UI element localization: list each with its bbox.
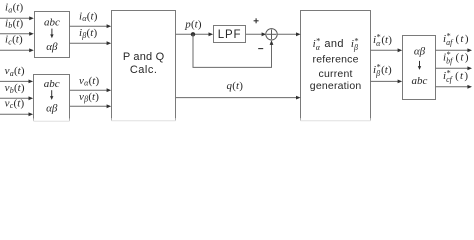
svg-text:αβ: αβ bbox=[414, 46, 426, 58]
svg-text:iα(t): iα(t) bbox=[79, 10, 98, 23]
svg-text:i*β(t): i*β(t) bbox=[373, 62, 392, 78]
svg-text:q(t): q(t) bbox=[227, 80, 244, 92]
svg-text:i*cf(t): i*cf(t) bbox=[443, 67, 468, 83]
svg-text:ic(t): ic(t) bbox=[5, 34, 23, 47]
svg-text:abc: abc bbox=[412, 75, 428, 87]
svg-text:abc: abc bbox=[44, 78, 60, 90]
svg-text:vα(t): vα(t) bbox=[79, 75, 100, 88]
svg-text:iβ(t): iβ(t) bbox=[79, 27, 97, 40]
svg-text:reference: reference bbox=[313, 53, 359, 65]
svg-text:i*bf(t): i*bf(t) bbox=[443, 49, 469, 65]
svg-text:generation: generation bbox=[310, 80, 362, 92]
svg-text:va(t): va(t) bbox=[5, 65, 25, 78]
svg-text:p(t): p(t) bbox=[184, 18, 202, 30]
svg-text:i*α(t): i*α(t) bbox=[373, 32, 392, 48]
svg-text:vb(t): vb(t) bbox=[5, 82, 25, 95]
svg-text:LPF: LPF bbox=[218, 29, 242, 41]
svg-text:vc(t): vc(t) bbox=[5, 97, 25, 110]
svg-text:i*αandi*β: i*αandi*β bbox=[313, 36, 359, 52]
svg-text:vβ(t): vβ(t) bbox=[79, 91, 99, 104]
svg-text:abc: abc bbox=[44, 16, 60, 28]
svg-text:P and Q: P and Q bbox=[123, 51, 165, 63]
svg-text:αβ: αβ bbox=[46, 103, 58, 115]
svg-text:ib(t): ib(t) bbox=[5, 17, 23, 30]
svg-text:i*af(t): i*af(t) bbox=[443, 30, 469, 46]
svg-text:αβ: αβ bbox=[46, 41, 58, 53]
svg-text:ia(t): ia(t) bbox=[5, 2, 23, 15]
svg-text:current: current bbox=[319, 68, 353, 80]
svg-text:Calc.: Calc. bbox=[130, 64, 158, 76]
